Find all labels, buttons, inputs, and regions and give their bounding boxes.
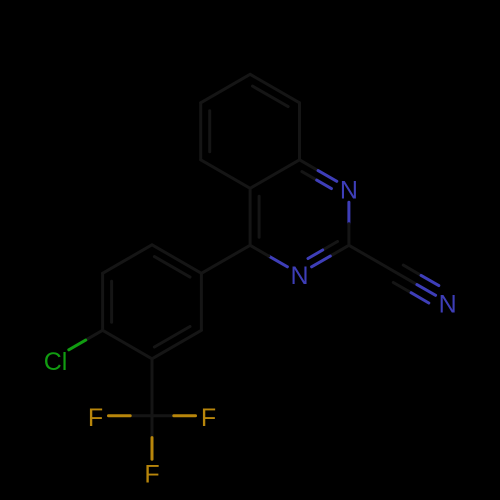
svg-text:F: F	[144, 460, 159, 488]
bond C-F bottom (half at first atom)	[151, 416, 154, 438]
bond C5=C6 double main line	[199, 103, 202, 160]
bond C4=C4a double inner line	[258, 196, 261, 237]
bond C2'-C3' single	[103, 245, 152, 273]
bond C-F bottom (half at second atom)	[151, 438, 154, 460]
bond C9#N10 triple main line (half at second atom)	[417, 285, 436, 296]
bond C-F right (half at first atom)	[152, 414, 174, 417]
bond C2=N3 double inner line (half at first atom)	[323, 242, 338, 251]
bond C4-C1' biaryl single	[201, 245, 250, 273]
bond C8a=N1 double main line (half at second atom)	[318, 171, 337, 182]
bond C9#N10 triple lower-left side line (N half)	[411, 293, 429, 303]
bond C-F left (half at second atom)	[109, 414, 131, 417]
bond C7=C8 double inner line	[253, 86, 289, 107]
bond C8a=N1 double main line (half at first atom)	[300, 160, 319, 171]
svg-text:F: F	[88, 404, 103, 432]
bond C1'=C2' double inner line	[154, 257, 190, 278]
bond C2=N3 double inner line (half at second atom)	[308, 250, 323, 259]
bond C4'-C5' single	[103, 330, 152, 359]
bond C7=C8 double main line	[250, 74, 299, 103]
svg-text:Cl: Cl	[44, 348, 68, 376]
bond C3'=C4' double main line	[101, 273, 104, 330]
bond C4'-Cl single (half at second atom)	[69, 340, 86, 350]
bond N1-C2 single (half at second atom)	[347, 224, 350, 246]
bond C5'=C6' double main line	[152, 330, 201, 359]
bond C2=N3 double main line (half at first atom)	[330, 245, 349, 256]
bond N1-C2 single (half at first atom)	[347, 202, 350, 224]
bond C9#N10 triple upper-right side line (N half)	[421, 275, 439, 285]
bond C6-C7 single	[201, 74, 250, 103]
bond C5'=C6' double inner line	[154, 327, 190, 348]
bond C1'=C2' double main line	[152, 245, 201, 273]
svg-text:F: F	[201, 404, 216, 432]
bond C9#N10 triple lower-left side line (C half)	[393, 283, 411, 293]
svg-text:N: N	[340, 176, 358, 204]
bond C5'-C(F3) single	[151, 359, 154, 416]
bond C4'-Cl single (half at first atom)	[86, 330, 103, 340]
svg-text:N: N	[290, 262, 308, 290]
bond C4=C4a double main line	[249, 188, 252, 245]
bond C-F left (half at first atom)	[130, 414, 152, 417]
bond N3-C4 single (half at second atom)	[250, 245, 269, 256]
bond C2=N3 double main line (half at second atom)	[312, 256, 331, 267]
svg-text:N: N	[439, 290, 457, 318]
bond C3'=C4' double inner line	[110, 281, 113, 322]
bond C6'-C1' single	[200, 273, 203, 330]
bond C-F right (half at second atom)	[174, 414, 196, 417]
bond C9#N10 triple main line (half at first atom)	[398, 274, 417, 285]
bond C4a-C5 single	[201, 160, 250, 189]
bond C8a=N1 double inner line (half at first atom)	[302, 172, 317, 181]
bond C5=C6 double inner line	[208, 111, 211, 152]
bond C4a-C8a ring fusion single	[250, 160, 299, 189]
bond N3-C4 single (half at first atom)	[269, 256, 288, 267]
bond C2-C9 single	[349, 245, 398, 273]
bond C8a=N1 double inner line (half at second atom)	[317, 180, 332, 189]
bond C9#N10 triple upper-right side line (C half)	[403, 265, 421, 275]
bond C8-C8a single	[298, 103, 301, 160]
